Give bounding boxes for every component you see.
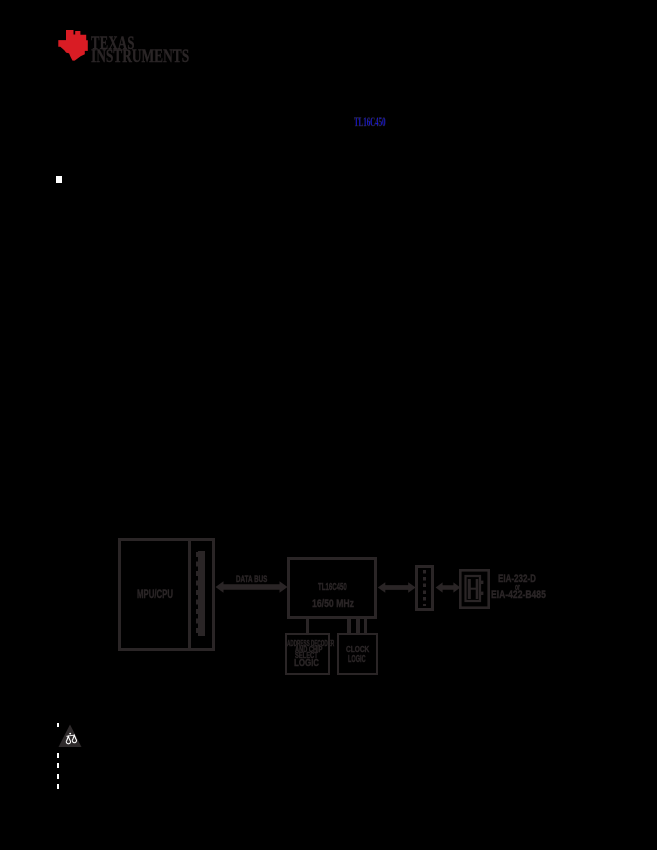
label address decoder lines — [287, 640, 334, 648]
box MPU/CPU — [118, 538, 215, 651]
label MPU/CPU — [137, 588, 173, 600]
internal bus ripple bar — [198, 551, 205, 636]
label logic — [348, 654, 366, 665]
INSTRUMENTS wordmark — [91, 47, 189, 66]
wire 3 box2 to clock logic — [364, 618, 367, 634]
double arrow box2 to driver — [377, 581, 417, 594]
data bus double arrow (box1 to box2) — [214, 579, 289, 595]
driver/receiver narrow box — [415, 565, 434, 612]
box address decoder — [285, 633, 330, 675]
box clock logic — [337, 633, 378, 675]
box TL16C450 UART — [287, 557, 377, 620]
warning triangle with scales icon — [57, 723, 83, 749]
dashed center line in driver box — [423, 570, 425, 606]
label DATA BUS — [236, 575, 267, 584]
wire 2 box2 to clock logic — [356, 618, 359, 634]
white change bar dash 1 — [57, 723, 60, 728]
TI logo bug (red Texas map) — [55, 28, 90, 63]
wire 1 box2 to clock logic — [347, 618, 350, 634]
label or — [515, 583, 520, 592]
label clock — [346, 645, 369, 654]
white change bar dash 2 — [57, 753, 60, 758]
blue hyperlink part number — [354, 117, 386, 130]
serial connector icon — [459, 569, 490, 609]
partition line inside MPU box — [188, 540, 191, 648]
wire box2 to address decoder — [306, 618, 310, 634]
label 16/50 MHz — [312, 599, 354, 610]
white change bar dash 3 — [57, 763, 60, 768]
label EIA-422-B interface — [491, 590, 546, 601]
double arrow driver to connector — [435, 581, 461, 594]
TEXAS wordmark — [91, 34, 135, 53]
white change-mark square — [56, 176, 62, 183]
label EIA-232-D — [498, 574, 536, 585]
label TL16C450 — [318, 583, 347, 593]
dashed edge of bus ripple — [196, 552, 198, 635]
white change bar dash 5 — [57, 784, 60, 789]
white change bar dash 4 — [57, 774, 60, 779]
